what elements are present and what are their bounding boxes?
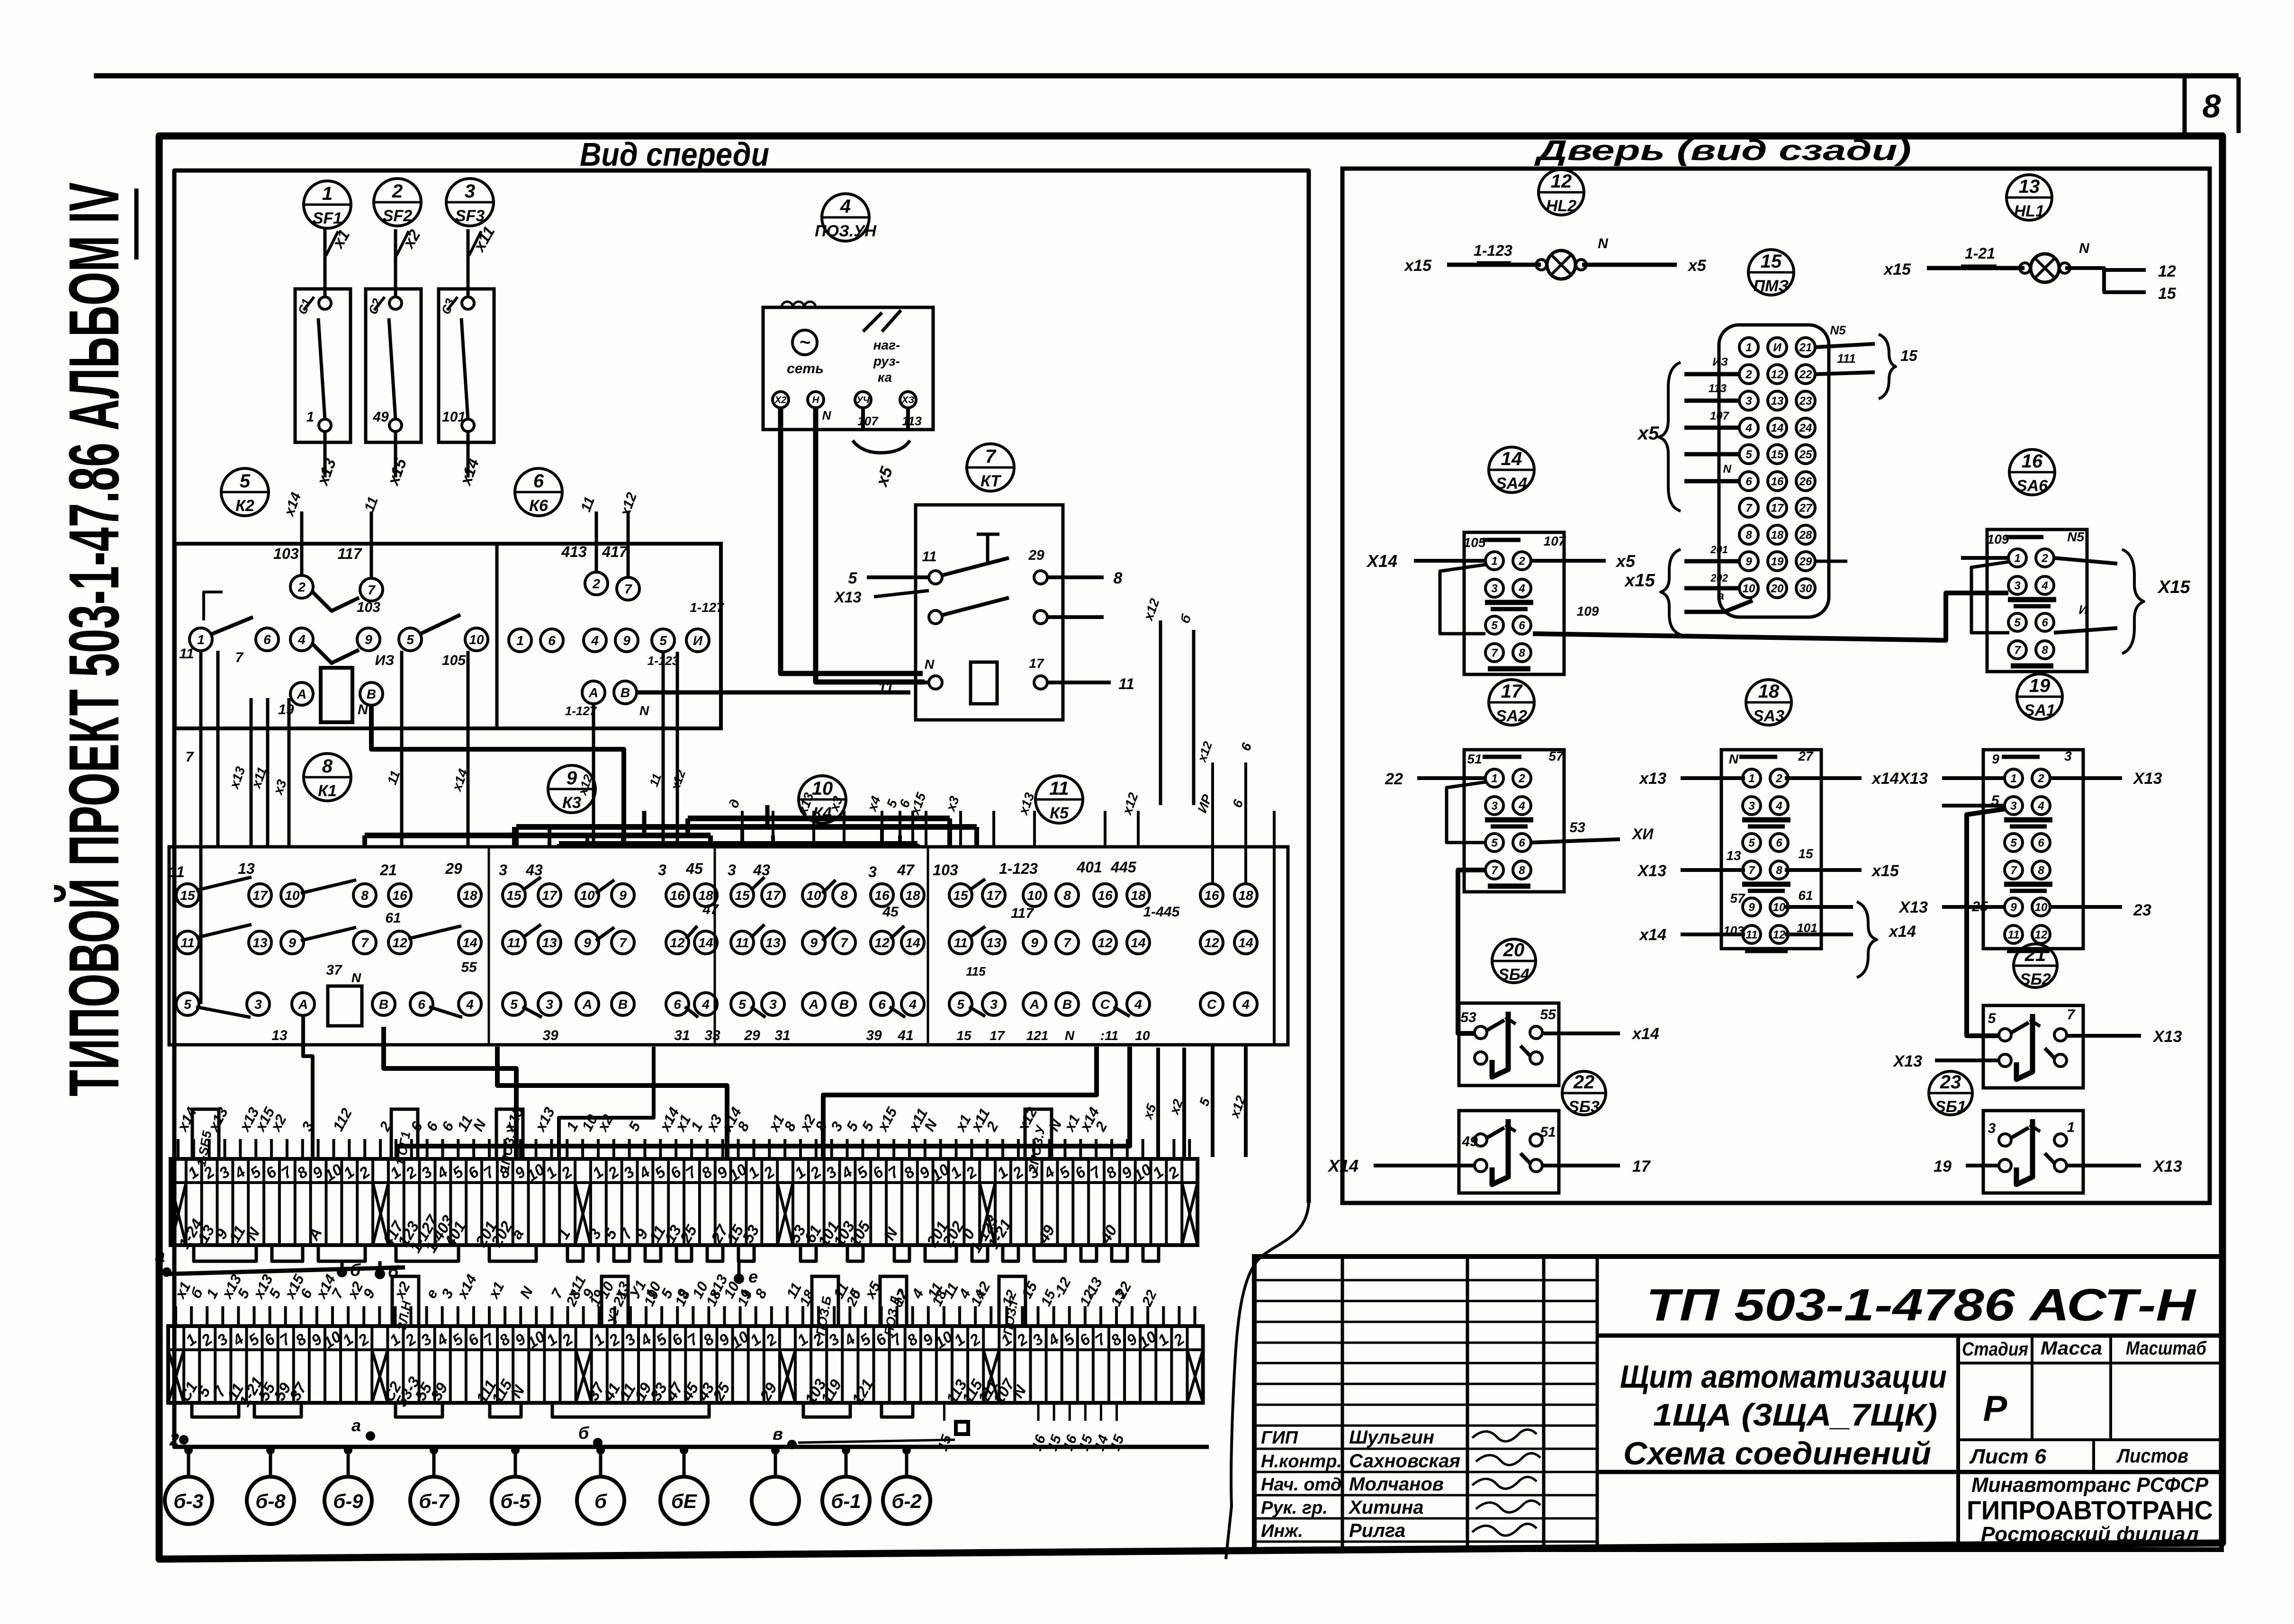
svg-text:SБ3: SБ3 [1568,1098,1600,1116]
svg-text:А: А [1029,997,1039,1012]
svg-text:107: 107 [857,414,879,428]
wire up to х2 [394,229,397,297]
svg-text:К3: К3 [562,794,581,812]
svg-text:15: 15 [180,888,195,903]
svg-text:ТП 503-1-4786 АСТ-Н: ТП 503-1-4786 АСТ-Н [1646,1280,2196,1330]
svg-text:401: 401 [1076,859,1102,876]
svg-text:SБ1: SБ1 [1935,1098,1966,1116]
svg-text:А: А [582,997,592,1012]
svg-text:9: 9 [1748,901,1755,914]
svg-text:15: 15 [1900,347,1918,364]
SA2 to SB4 heavy wire [1458,870,1486,1033]
svg-text:4: 4 [909,997,917,1012]
svg-text:16: 16 [1098,888,1113,903]
svg-text:6: 6 [263,632,271,647]
svg-text:И: И [2079,602,2088,617]
svg-text:53: 53 [1460,1010,1476,1025]
top rule line [94,73,2239,79]
svg-text:N5: N5 [1830,323,1846,337]
relay designator 8 K1 [304,754,351,801]
svg-text:3: 3 [990,997,998,1012]
svg-text:Шульгин: Шульгин [1349,1427,1434,1448]
svg-text:11: 11 [954,935,967,950]
svg-text:3: 3 [2010,800,2017,813]
strip1 lower group brackets [194,1245,256,1261]
svg-text:б-9: б-9 [333,1490,363,1512]
svg-text:8: 8 [1519,864,1525,877]
svg-text:N: N [925,657,935,672]
button designator 21 SB2 [2014,944,2057,988]
lamp designator 13 HL1 [2006,175,2052,220]
connector designator 15 [1748,250,1794,295]
svg-text:13: 13 [271,1028,288,1043]
svg-text:5: 5 [2014,617,2021,629]
svg-text:е: е [748,1267,758,1286]
svg-text:16: 16 [1204,888,1219,903]
bottom designator б-5 [492,1477,539,1524]
svg-text:N: N [358,702,369,718]
svg-text:4: 4 [1518,800,1525,813]
svg-text:10: 10 [580,888,595,903]
svg-text:4: 4 [297,632,306,647]
svg-text:17: 17 [1029,656,1044,671]
svg-text:107: 107 [1710,410,1730,422]
svg-text:43: 43 [753,861,770,879]
svg-text:Вид спереди: Вид спереди [580,136,769,173]
svg-text:х14: х14 [1638,926,1666,944]
connector block 15 [1719,325,1829,617]
relay designator 6 K6 [515,468,562,516]
svg-text:1: 1 [197,632,205,647]
svg-text:1: 1 [2010,772,2016,785]
svg-text:6: 6 [548,633,556,648]
svg-text:Инж.: Инж. [1261,1521,1303,1541]
svg-text:8: 8 [2042,644,2048,657]
svg-text:2: 2 [169,1430,179,1449]
svg-text:3: 3 [1745,395,1752,408]
svg-text:наг-: наг- [873,338,900,352]
wire down to х13 [324,431,327,477]
svg-text:3: 3 [1491,800,1498,813]
switch SA6 contacts [1987,529,2087,672]
terminal strip row 2 [168,1326,1203,1403]
svg-text:15: 15 [2158,285,2177,303]
right panel frame (door rear view) [1342,169,2210,1203]
svg-text:9: 9 [810,935,818,950]
switch designator 16 SA6 [2009,449,2055,495]
svg-text:5: 5 [510,997,518,1012]
svg-text:ГИП: ГИП [1261,1428,1298,1448]
svg-text:12: 12 [874,935,890,950]
SA1 wires [1942,776,2005,780]
svg-text:14: 14 [698,935,713,950]
svg-text:сеть: сеть [787,361,824,377]
svg-text:9: 9 [365,632,372,647]
svg-text:3: 3 [546,997,553,1012]
svg-text:37: 37 [326,962,342,978]
svg-text:8: 8 [1114,569,1123,587]
svg-text:53: 53 [1569,820,1585,835]
svg-text:6: 6 [418,997,425,1012]
relay designator 11 K5 [1035,776,1083,823]
lamp HL1 [1927,266,2024,270]
svg-text:В: В [1062,997,1072,1012]
svg-text:х5: х5 [1687,257,1707,275]
svg-text:55: 55 [1540,1007,1556,1023]
svg-text:Х13: Х13 [2152,1157,2182,1175]
svg-text:13: 13 [1726,848,1741,863]
svg-text:~: ~ [799,332,810,353]
svg-text:25: 25 [1799,449,1812,461]
button SB2 [1983,1005,2083,1088]
switch SA1 contacts [1983,750,2083,949]
svg-text:5: 5 [738,997,746,1012]
svg-text:13: 13 [238,860,255,877]
svg-text:Х14: Х14 [1327,1156,1358,1175]
wire up to х11 [467,229,470,297]
svg-text:УЧ: УЧ [856,395,870,405]
svg-text:12: 12 [392,935,407,950]
switch SA4 contacts [1464,532,1564,674]
svg-text:107: 107 [1544,534,1566,548]
svg-text:1: 1 [1745,341,1752,354]
svg-text:К2: К2 [235,497,254,515]
svg-text:7: 7 [1491,864,1498,877]
svg-text:3: 3 [769,997,777,1012]
svg-text:И: И [1773,341,1781,354]
svg-text:х5: х5 [1615,551,1636,571]
svg-text:КТ: КТ [981,472,1002,490]
left panel frame (front view) [174,170,1309,1447]
svg-text:ГИПРОАВТОТРАНС: ГИПРОАВТОТРАНС [1967,1495,2213,1525]
junction square [956,1422,968,1434]
svg-text:61: 61 [1798,888,1813,903]
KT contact 1 [929,571,942,584]
K2 wires up [300,511,304,574]
svg-text:51: 51 [1467,752,1482,766]
svg-text:10: 10 [2035,901,2048,914]
svg-text:8: 8 [840,888,848,903]
svg-text:201: 201 [1710,544,1728,556]
svg-text:в: в [773,1424,783,1444]
svg-text:11: 11 [1746,929,1758,942]
svg-text:15: 15 [1761,251,1782,272]
svg-text:1: 1 [322,183,333,204]
svg-text:Схема соединений: Схема соединений [1623,1436,1931,1471]
svg-text:1ЩА (3ЩА_7ЩК): 1ЩА (3ЩА_7ЩК) [1653,1397,1937,1432]
svg-text:10: 10 [1135,1028,1150,1043]
svg-text:К1: К1 [318,782,337,800]
svg-text:113: 113 [902,414,922,428]
svg-text:х15: х15 [1624,571,1655,591]
svg-text:14: 14 [1501,449,1522,469]
svg-text:21: 21 [379,861,397,879]
K6 wires [595,511,598,572]
svg-text:19: 19 [2029,675,2051,696]
svg-text:10: 10 [1027,888,1042,903]
breaker SF1 box [295,289,351,442]
svg-text:41: 41 [897,1028,913,1043]
svg-text:17: 17 [1501,681,1523,702]
svg-text:101: 101 [442,409,466,425]
svg-text:б: б [594,1490,607,1512]
svg-text:10: 10 [1773,901,1786,914]
svg-text:121: 121 [1026,1028,1049,1043]
svg-text:16: 16 [2022,451,2043,472]
svg-text:SБ2: SБ2 [2020,970,2051,988]
svg-text:17: 17 [542,888,558,903]
svg-text:13: 13 [542,935,557,950]
svg-text:19: 19 [1771,556,1784,568]
svg-text:х5: х5 [1637,423,1659,444]
svg-text:7: 7 [2014,644,2021,657]
svg-text:31: 31 [774,1028,790,1043]
svg-text:2: 2 [2037,772,2044,785]
svg-text:Х13: Х13 [2152,1028,2182,1046]
svg-text:Х13: Х13 [2132,770,2162,788]
svg-text:1-123: 1-123 [999,860,1038,877]
K2 left wires down [204,592,223,620]
band divider 1 [488,847,490,1045]
svg-text:1: 1 [306,409,315,425]
svg-text:8: 8 [361,888,369,903]
relay designator 5 K2 [221,468,269,516]
svg-text:1-127: 1-127 [690,600,724,615]
svg-text:11: 11 [922,549,936,565]
svg-text::11: :11 [1100,1028,1118,1043]
svg-text:15: 15 [956,1028,972,1043]
svg-text:39: 39 [542,1028,558,1043]
svg-text:20: 20 [1503,940,1525,960]
svg-text:5: 5 [2010,837,2017,850]
svg-text:4: 4 [702,997,710,1012]
svg-text:8: 8 [1519,647,1525,660]
svg-text:1: 1 [1491,772,1497,785]
svg-text:ПОЗ.УН: ПОЗ.УН [815,222,877,240]
svg-text:N: N [351,970,361,985]
svg-text:23: 23 [2133,901,2151,919]
IV underline [135,188,139,260]
svg-text:а: а [1718,590,1724,602]
bottom designator б-1 [822,1477,870,1524]
svg-text:2: 2 [392,181,403,202]
svg-text:45: 45 [685,860,703,877]
title block outer [1254,1256,2222,1550]
svg-text:6: 6 [878,997,886,1012]
names table verticals [1341,1256,1344,1550]
svg-text:N: N [639,703,649,718]
svg-text:б-7: б-7 [419,1490,450,1512]
svg-text:8: 8 [2038,864,2044,877]
relay K6 contacts [585,572,608,595]
svg-text:б-8: б-8 [255,1490,286,1512]
svg-text:SF3: SF3 [455,207,485,225]
relay K1 contacts [176,884,199,906]
svg-text:2: 2 [1745,368,1752,381]
svg-text:Х13: Х13 [1898,770,1928,788]
svg-text:15: 15 [735,888,750,903]
switch designator 18 SA3 [1746,680,1791,725]
svg-text:5: 5 [1491,619,1498,632]
svg-text:И: И [693,633,703,648]
svg-text:7: 7 [624,582,632,596]
svg-text:12: 12 [1098,935,1113,950]
svg-text:Сахновская: Сахновская [1349,1451,1460,1471]
svg-text:N: N [822,408,832,422]
svg-text:5: 5 [1491,837,1498,850]
svg-text:SА6: SА6 [2016,477,2048,495]
svg-text:23: 23 [1799,395,1812,408]
svg-text:21: 21 [1799,341,1812,354]
button SB1 [1983,1111,2083,1193]
svg-text:Х13: Х13 [1637,862,1667,880]
bottom designator blank [752,1477,799,1524]
svg-text:SБ4: SБ4 [1498,966,1529,984]
svg-text:бЕ: бЕ [671,1490,698,1512]
svg-text:ПМЗ: ПМЗ [1754,277,1789,295]
relay designator 9 K3 [548,765,595,813]
svg-text:Дверь (вид сзади): Дверь (вид сзади) [1534,135,1911,166]
svg-text:N5: N5 [2067,529,2084,544]
svg-text:3: 3 [658,861,666,879]
svg-text:9: 9 [2010,901,2017,914]
svg-text:2: 2 [297,580,306,594]
vertical wires from designator row into band [741,811,744,848]
SA3 wires [1681,776,1745,780]
svg-text:В: В [367,687,376,701]
lamp designator 12 HL2 [1538,170,1584,215]
svg-text:413: 413 [561,543,587,560]
svg-text:17: 17 [1771,502,1784,515]
svg-text:5: 5 [1745,449,1752,461]
svg-text:18: 18 [1238,888,1253,903]
relay K5 contacts [949,884,972,906]
svg-text:х14: х14 [1871,770,1899,788]
svg-text:4: 4 [1745,422,1752,435]
switch designator 17 SA2 [1489,680,1534,725]
svg-text:1: 1 [1491,555,1497,568]
svg-text:К6: К6 [529,497,549,515]
svg-text:1: 1 [1748,772,1754,785]
svg-text:12: 12 [1771,368,1784,381]
svg-text:43: 43 [525,861,543,879]
svg-text:445: 445 [1110,859,1137,876]
svg-text:х13: х13 [1638,770,1666,788]
svg-text:20: 20 [1771,583,1784,595]
svg-text:10: 10 [1743,583,1755,595]
svg-text:Хитина: Хитина [1348,1497,1424,1518]
bus under K2 to K6 [371,705,624,848]
bottom designator б-3 [165,1477,212,1524]
button designator 23 SB1 [1929,1071,1972,1116]
svg-text:24: 24 [1799,422,1812,435]
svg-text:6: 6 [674,997,681,1012]
relay designator 7 KT [967,444,1014,491]
svg-text:12: 12 [1204,935,1219,950]
svg-text:27: 27 [1798,749,1814,763]
svg-text:SА3: SА3 [1753,707,1784,725]
wire down to х15 [394,431,397,477]
svg-text:39: 39 [866,1028,882,1043]
svg-text:4: 4 [1518,583,1525,595]
circuit breaker designator 1 SF1 [304,181,351,228]
svg-text:1: 1 [2014,552,2020,565]
svg-text:Масштаб: Масштаб [2126,1338,2207,1359]
svg-text:17: 17 [252,888,268,903]
connector x5 wires [1684,372,1739,377]
svg-text:61: 61 [385,910,401,926]
wire down to х14 [467,431,470,477]
svg-text:9: 9 [567,768,577,789]
svg-text:29: 29 [445,860,462,877]
svg-text:15: 15 [1798,846,1813,861]
svg-text:12: 12 [2158,262,2176,280]
wire to KT coil [781,408,923,673]
K6 B wire to KT [637,691,910,695]
svg-text:11: 11 [179,646,194,662]
svg-text:51: 51 [1540,1124,1556,1140]
svg-text:29: 29 [744,1028,760,1043]
svg-text:14: 14 [1238,935,1253,950]
svg-text:5: 5 [848,569,858,587]
svg-text:6: 6 [1776,837,1782,850]
svg-text:8: 8 [2203,88,2221,125]
svg-text:1-445: 1-445 [1143,904,1180,920]
heavy wires below band to strips [384,1027,516,1157]
svg-text:У2: У2 [605,1307,621,1325]
svg-text:55: 55 [461,960,477,975]
svg-text:117: 117 [1011,906,1034,921]
relay K3 contacts [503,884,525,906]
K2/K6 divider [495,544,499,728]
svg-text:103: 103 [933,861,958,879]
svg-text:29: 29 [1799,556,1812,568]
svg-text:33: 33 [704,1028,720,1043]
svg-text:13: 13 [1771,395,1784,408]
svg-text:18: 18 [1131,888,1146,903]
svg-text:10: 10 [806,888,821,903]
svg-text:4: 4 [1134,997,1142,1012]
svg-text:1: 1 [2067,1120,2075,1135]
svg-text:11: 11 [735,935,749,950]
svg-text:6: 6 [1745,476,1752,488]
svg-text:9: 9 [1992,752,1999,766]
svg-text:13: 13 [2019,176,2040,197]
svg-text:В: В [618,997,628,1012]
svg-text:3: 3 [1988,1121,1996,1136]
svg-text:11: 11 [169,863,184,880]
svg-text:Рук. гр.: Рук. гр. [1261,1498,1328,1518]
svg-text:N: N [1723,463,1732,476]
sheet number box [2183,76,2187,133]
svg-text:9: 9 [1031,935,1038,950]
svg-text:Х14: Х14 [1366,551,1397,571]
svg-text:6: 6 [533,471,544,492]
svg-text:N: N [1598,236,1609,251]
SA4 wires [1414,559,1486,563]
svg-text:8: 8 [1063,888,1071,903]
svg-text:7: 7 [2010,864,2017,877]
breaker SF2 box [366,289,421,442]
svg-text:А: А [809,997,819,1012]
svg-text:19: 19 [278,702,294,718]
svg-text:7: 7 [840,935,848,950]
svg-text:2: 2 [592,576,600,591]
svg-text:113: 113 [1709,382,1727,395]
svg-text:Х13: Х13 [1898,898,1928,916]
switch designator 19 SA1 [2017,674,2062,719]
svg-text:б-3: б-3 [173,1490,203,1512]
